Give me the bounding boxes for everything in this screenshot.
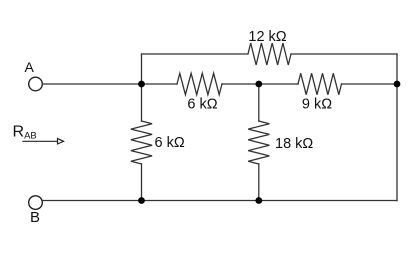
wire node1 to 6k — [142, 83, 178, 85]
wire node2 down — [258, 84, 260, 121]
wire 6k to node2 — [222, 83, 259, 85]
arrow R_AB direction — [23, 140, 58, 142]
resistor 18 kOhm — [248, 121, 269, 164]
junction node2 — [255, 81, 262, 88]
wire riser node1 to top branch — [141, 54, 143, 84]
svg-text:RAB: RAB — [13, 124, 37, 142]
junction right rail — [394, 81, 401, 88]
wire A to node1 — [42, 83, 141, 85]
svg-text:12 kΩ: 12 kΩ — [248, 29, 286, 45]
wire node1 down — [141, 84, 143, 121]
terminal A — [29, 77, 43, 91]
junction bottom node2 — [255, 197, 262, 204]
svg-text:18 kΩ: 18 kΩ — [275, 136, 313, 152]
bottom wire — [42, 200, 397, 202]
svg-text:9 kΩ: 9 kΩ — [302, 96, 332, 112]
svg-text:B: B — [30, 209, 40, 226]
wire right vertical — [396, 54, 398, 201]
svg-text:6 kΩ: 6 kΩ — [155, 135, 185, 151]
junction node1 — [138, 81, 145, 88]
junction bottom node1 — [138, 197, 145, 204]
svg-text:A: A — [25, 59, 35, 75]
svg-text:6 kΩ: 6 kΩ — [187, 96, 217, 112]
wire top left segment — [142, 53, 249, 55]
wire 6k vertical to bottom — [141, 164, 143, 201]
wire 9k to right rail — [342, 83, 398, 85]
resistor 12 kOhm — [248, 43, 291, 65]
resistor 6 kOhm horizontal — [177, 73, 222, 94]
wire top right segment — [291, 53, 397, 55]
resistor 6 kOhm vertical — [131, 121, 152, 164]
wire 18k to bottom — [258, 164, 260, 201]
wire node2 to 9k — [259, 83, 298, 85]
resistor 9 kOhm — [298, 73, 342, 94]
terminal B — [29, 196, 43, 210]
